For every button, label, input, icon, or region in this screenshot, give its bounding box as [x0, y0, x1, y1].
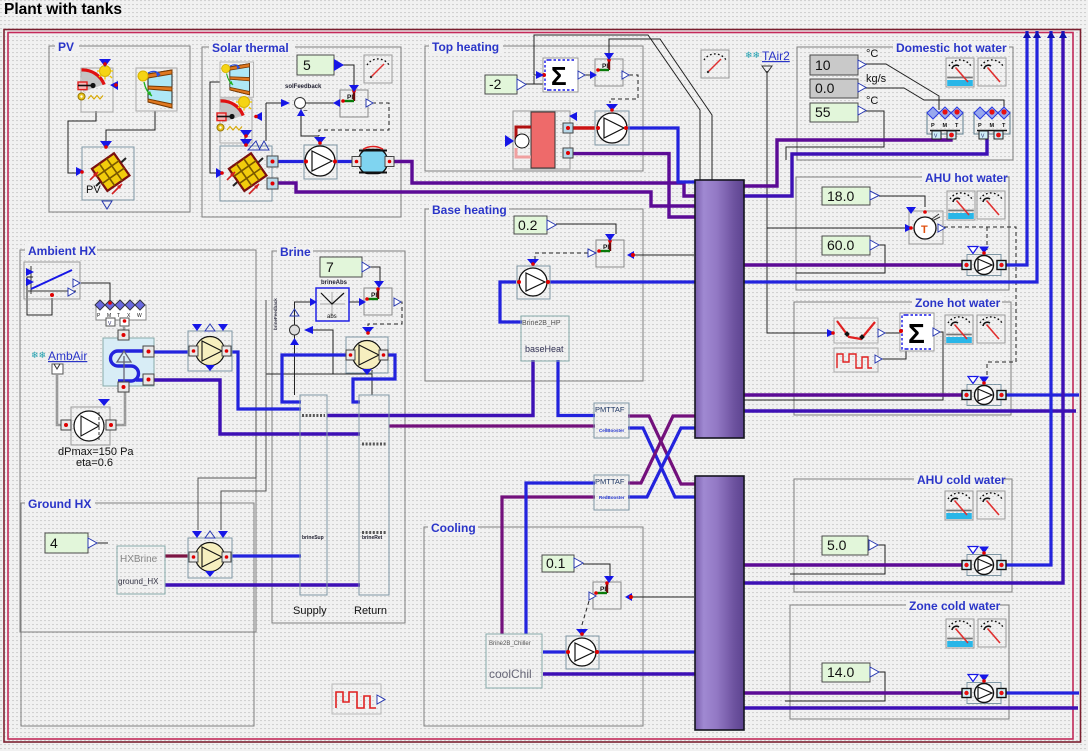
- weather window icon solar: [220, 62, 254, 97]
- pipe purple solar collector return: [273, 183, 696, 206]
- pipe red top-heating HX to pump: [573, 126, 595, 129]
- wire top-heating PI dashed to pump: [610, 75, 638, 103]
- pipe maroon HXBrine to ground pump: [165, 554, 192, 557]
- PI controller top heating: [590, 53, 629, 86]
- pipe purple tank1 to AHU hot pump: [744, 263, 967, 266]
- pipe blue solar pump to vessel: [335, 160, 357, 163]
- svg-text:Ground HX: Ground HX: [28, 497, 91, 511]
- weather window icon PV: [136, 68, 177, 111]
- pipe blue base heating pump to heatpump: [500, 282, 522, 322]
- group box Zone hot water: [794, 296, 1011, 415]
- svg-text:60.0: 60.0: [827, 237, 854, 253]
- value box 4: [45, 533, 97, 553]
- wire brine sensor verticals to ground pump: [198, 300, 256, 530]
- HXBrine block: [117, 546, 165, 594]
- pipe indigo ground HX to return: [165, 583, 360, 586]
- svg-text:Plant with tanks: Plant with tanks: [4, 1, 122, 18]
- svg-text:AmbAir: AmbAir: [48, 349, 87, 363]
- pipe indigo tank1 to DHW valve2: [744, 130, 987, 196]
- wire solar PI dashed output to pump: [319, 103, 389, 136]
- pump ambient brine: [188, 324, 232, 371]
- tank 1 (top buffer tank): [695, 180, 744, 438]
- wire PV weather1 to PV panel: [68, 111, 96, 173]
- svg-text:PV: PV: [58, 40, 74, 54]
- pipe purple tank2 to zone cold pump: [744, 691, 967, 694]
- AHU cold gauges: [945, 491, 973, 520]
- gray air duct HX to valve: [123, 326, 126, 336]
- wire solar feedback circle input: [266, 103, 281, 141]
- DHW gauge water: [946, 58, 974, 87]
- DHW gray value box 0.0: [810, 73, 887, 98]
- pipe blue zone hot pump out: [1001, 393, 1079, 396]
- sum block top heating: [536, 58, 585, 92]
- svg-text:5: 5: [303, 57, 311, 73]
- wire base heating PI sensor from tank: [634, 254, 694, 256]
- wire ambient ramp feedback: [27, 277, 52, 315]
- wire solar window to collector: [210, 82, 220, 173]
- pipe indigo tank1 zone hot return: [744, 409, 1076, 412]
- pipe blue base heating pump to tank1: [550, 280, 696, 283]
- TAir2 weather connector: [745, 49, 790, 73]
- group box PV: [49, 40, 190, 212]
- expansion vessel solar: [352, 146, 394, 173]
- wire DHW 55 degC setpoint: [786, 111, 884, 160]
- zone cold value 14.0: [822, 663, 879, 682]
- value box 0.1: [542, 555, 583, 572]
- svg-text:CellBooster: CellBooster: [599, 428, 625, 433]
- pipe blue AHU cold pump up to ceiling: [1001, 31, 1051, 565]
- pump brine: [346, 327, 388, 375]
- pipe blue solar collector to pump: [273, 160, 306, 163]
- svg-text:AHU cold water: AHU cold water: [917, 473, 1006, 487]
- zone cold pump: [962, 675, 1006, 704]
- svg-text:brineAbs: brineAbs: [321, 280, 348, 286]
- feedback circle brine: [290, 309, 314, 345]
- DHW gauge plain: [978, 58, 1006, 86]
- pipe purple tank1 to DHW valve1: [744, 130, 951, 186]
- DHW gray value box 10: [810, 48, 878, 75]
- wire brine circle from below: [294, 335, 296, 396]
- svg-text:TAir2: TAir2: [762, 49, 790, 63]
- pipe blue brine pump right loop to return: [353, 355, 395, 402]
- svg-text:0.0: 0.0: [815, 80, 835, 96]
- svg-text:Σ: Σ: [908, 318, 925, 349]
- svg-text:Zone hot water: Zone hot water: [915, 296, 1001, 310]
- pipe blue ambient pump to supply: [228, 352, 301, 409]
- wire solar sun-icon to collector: [244, 135, 246, 143]
- zone cold gauges: [946, 619, 974, 648]
- svg-text:AHU hot water: AHU hot water: [925, 171, 1008, 185]
- pipe magenta PMTTAF1 to tank2 upper (X crossing): [628, 416, 696, 484]
- svg-text:°C: °C: [866, 95, 878, 107]
- group box AHU cold water: [794, 473, 1012, 592]
- pulse generator (bottom standalone): [332, 684, 385, 714]
- svg-text:Return: Return: [354, 605, 387, 617]
- wire zone hot sum output to tank sensor: [744, 332, 943, 400]
- AHU hot value 60.0: [822, 236, 879, 255]
- fan ambient (dPmax): [61, 399, 116, 445]
- svg-text:solFeedback: solFeedback: [285, 84, 322, 90]
- pipe blue PMTTAF2 to tank1 (X crossing): [628, 428, 696, 497]
- value box 5: [297, 55, 344, 75]
- svg-text:❄❄: ❄❄: [745, 50, 760, 60]
- pipe blue tank1 return from ceiling: [744, 31, 1037, 282]
- wire solar circle to PI: [306, 102, 340, 104]
- wire DHW 10 degC to valve1: [864, 64, 939, 110]
- pipe purple tank1 to zone hot pump: [744, 393, 967, 396]
- pipe indigo tank2 AHU cold return from ceiling: [744, 31, 1063, 583]
- wire brine circle feedback right: [266, 330, 372, 395]
- svg-text:55: 55: [815, 104, 831, 120]
- svg-text:coolChil: coolChil: [489, 667, 532, 681]
- pipe indigo ambient HX return column: [154, 380, 360, 434]
- wire cooling PI sensor from tank: [632, 596, 694, 598]
- wire sum to PI top-heating: [578, 74, 592, 76]
- svg-text:PV: PV: [86, 184, 101, 196]
- wire AHU hot 18.0 to T block: [879, 196, 925, 207]
- zone hot curve block: [827, 318, 885, 343]
- svg-text:18.0: 18.0: [827, 188, 854, 204]
- pipe blue brine pump left loop to supply: [282, 355, 346, 402]
- svg-text:W: W: [137, 313, 142, 319]
- AHU cold value 5.0: [822, 536, 878, 555]
- svg-text:Domestic hot water: Domestic hot water: [896, 41, 1007, 55]
- brine return column: [359, 395, 389, 595]
- wire solar setpoint 5 to PI: [342, 65, 354, 86]
- pipe blue ambient HX to brine pump: [154, 350, 192, 353]
- wire AHU cold 5.0: [790, 545, 885, 574]
- wire PV window to PV panel: [106, 111, 155, 146]
- value box 0.2: [514, 216, 556, 234]
- brine supply column: [300, 395, 327, 595]
- air HX block (coil): [103, 330, 154, 392]
- svg-text:0.1: 0.1: [546, 555, 566, 571]
- pipe indigo heatpump down to supply column: [327, 360, 533, 416]
- heat pump block baseHeat: [521, 316, 569, 361]
- AmbAir weather connector: [31, 349, 87, 374]
- ramp block ambient: [24, 262, 80, 299]
- pipe indigo tank2 zone cold return: [744, 706, 1078, 709]
- svg-text:−: −: [303, 106, 308, 115]
- svg-text:0.2: 0.2: [518, 217, 538, 233]
- pipe blue zone cold pump out: [1001, 691, 1079, 694]
- DHW valve group 1: [927, 107, 963, 140]
- group box Domestic hot water: [797, 41, 1013, 160]
- svg-text:Cooling: Cooling: [431, 521, 476, 535]
- PI controller solar: [333, 85, 373, 117]
- PMTTAF converter 2: [594, 475, 629, 510]
- gauge top heating: [701, 50, 729, 78]
- svg-text:Brine: Brine: [280, 245, 311, 259]
- PI controller cooling: [589, 576, 633, 609]
- group box Brine: [272, 245, 405, 623]
- feedback junction circle solar: [281, 98, 308, 117]
- svg-text:kg/s: kg/s: [866, 73, 887, 85]
- svg-text:Supply: Supply: [293, 605, 327, 617]
- weather sun-sector icon PV: [78, 59, 118, 112]
- pipe blue chiller to cooling pump: [543, 650, 568, 653]
- gray air duct AmbAir to fan: [57, 374, 64, 425]
- svg-text:HXBrine: HXBrine: [120, 554, 158, 565]
- arrow tips of riser pipes at top border: [1023, 31, 1067, 38]
- pipe blue heatpump down to PMTTAF1: [558, 360, 595, 416]
- zone hot pump: [962, 377, 1006, 406]
- wire cooling PI dashed to pump: [581, 601, 589, 628]
- svg-text:14.0: 14.0: [827, 664, 854, 680]
- AHU hot value 18.0: [822, 187, 879, 205]
- value box -2: [485, 75, 526, 94]
- zone hot pulse block: [834, 348, 882, 372]
- svg-text:T: T: [921, 224, 928, 236]
- wire TAir2 down and to T-block and curve block: [767, 71, 905, 333]
- PI controller brine: [359, 281, 401, 315]
- gauge solar: [364, 55, 392, 83]
- svg-text:7: 7: [326, 259, 334, 275]
- pipe magenta PMTTAF2 to tank1 (X crossing): [628, 416, 696, 483]
- group box Cooling: [424, 521, 643, 726]
- wire top-heating sensor A from tank: [534, 35, 700, 180]
- DHW valve group 2: [974, 107, 1010, 140]
- group box Base heating: [425, 203, 643, 381]
- svg-text:Σ: Σ: [551, 61, 567, 91]
- wire top-heating sensor B from tank to PI: [609, 39, 712, 180]
- pipe blue AHU hot pump up to ceiling: [1001, 31, 1027, 265]
- wire zone cold 14.0: [785, 672, 885, 701]
- wire AHU hot 60.0: [796, 245, 885, 273]
- group box Solar thermal: [202, 41, 401, 217]
- pump cooling: [566, 629, 599, 669]
- svg-text:Base heating: Base heating: [432, 203, 507, 217]
- AHU hot gauges: [947, 191, 975, 220]
- pipe magenta return column to PMTTAF1: [389, 424, 595, 427]
- wire brine abs to PI: [349, 301, 359, 303]
- svg-text:brineSup: brineSup: [302, 535, 324, 541]
- chiller block coolChil: [486, 634, 542, 688]
- zone hot sum block: [899, 313, 940, 351]
- wire brine PI dashed to pump: [368, 302, 402, 332]
- group box Ground HX: [21, 497, 254, 726]
- weather sun-sector icon solar: [217, 97, 252, 144]
- pump ground: [188, 531, 232, 578]
- svg-text:ground_HX: ground_HX: [118, 577, 159, 586]
- svg-text:abs: abs: [327, 314, 337, 320]
- pipe magenta chiller to PMTTAF2: [502, 497, 595, 634]
- svg-text:brineRet: brineRet: [362, 535, 383, 541]
- pipe purple top-heating HX return: [573, 154, 696, 217]
- svg-text:RedBooster: RedBooster: [599, 495, 625, 500]
- tank 2 (bottom buffer tank): [695, 476, 744, 730]
- svg-text:baseHeat: baseHeat: [525, 344, 564, 354]
- pipe blue top-heating pump to tank1: [628, 128, 696, 182]
- svg-text:10: 10: [815, 57, 831, 73]
- pipe blue PMTTAF1 to tank2 lower (X crossing): [628, 428, 696, 497]
- wire base heating 0.2 to PI: [556, 224, 616, 234]
- AHU hot pump: [962, 247, 1006, 276]
- svg-text:Brine2B_HP: Brine2B_HP: [522, 320, 561, 327]
- pump base heating: [517, 259, 550, 299]
- wire brine circle to abs input: [295, 302, 311, 326]
- svg-text:❄❄: ❄❄: [31, 350, 46, 360]
- group box Zone cold water: [790, 599, 1009, 719]
- wire ground 4 setpoint: [97, 542, 108, 544]
- svg-text:Zone cold water: Zone cold water: [909, 599, 1001, 613]
- zone hot gauges: [945, 315, 973, 344]
- PV panel block: [76, 141, 134, 209]
- pump solar: [304, 137, 337, 179]
- wire AHU hot T dashed to pumps: [944, 227, 1016, 375]
- pipe blue chiller to PMTTAF2: [526, 483, 595, 634]
- group box AHU hot water: [796, 171, 1009, 290]
- pipe purple solar vessel to tank1: [388, 162, 696, 197]
- group box Top heating: [425, 40, 643, 171]
- svg-text:brineFeedback: brineFeedback: [273, 298, 278, 330]
- wire base heating PI dashed to pump: [535, 253, 588, 260]
- svg-text:Top heating: Top heating: [432, 40, 499, 54]
- svg-text:°C: °C: [866, 48, 878, 60]
- pipe indigo chiller return tank2: [543, 672, 696, 675]
- AHU cold pump: [962, 547, 1006, 576]
- svg-text:5.0: 5.0: [827, 537, 847, 553]
- gray air duct fan to HX: [114, 390, 125, 425]
- valve array ambient (PMTXW): [95, 300, 146, 327]
- svg-text:Brine2B_Chiller: Brine2B_Chiller: [489, 641, 531, 647]
- wire solar circle minus from below: [301, 109, 319, 136]
- svg-text:Ambient HX: Ambient HX: [28, 244, 96, 258]
- svg-text:Solar thermal: Solar thermal: [212, 41, 289, 55]
- wire zone hot curve to sum: [885, 332, 900, 334]
- pump top heating: [595, 104, 629, 145]
- group box Ambient HX: [20, 244, 256, 632]
- wire ambient ramp output to valve: [81, 283, 110, 300]
- PMTTAF converter 1: [594, 403, 629, 438]
- wire DHW 0.0 kg/s to valve2: [864, 88, 1004, 110]
- DHW green value box 55: [810, 95, 878, 122]
- wire -2 to sum block: [525, 76, 543, 84]
- pipe blue cooling pump to tank2: [596, 650, 696, 653]
- abs block brine: [310, 288, 349, 321]
- PI controller base heating: [588, 234, 635, 267]
- wire zone hot pulse to sum: [882, 350, 906, 359]
- pipe blue ground pump to supply: [228, 554, 301, 557]
- svg-text:PMTTAF: PMTTAF: [595, 405, 625, 414]
- svg-text:4: 4: [50, 535, 58, 551]
- svg-text:PMTTAF: PMTTAF: [595, 477, 625, 486]
- value box 7: [320, 257, 370, 277]
- heat exchanger top heating: [505, 111, 577, 169]
- wire brine 7 to PI: [367, 267, 380, 281]
- T controller block AHU hot: [905, 207, 945, 244]
- svg-text:eta=0.6: eta=0.6: [76, 457, 113, 469]
- pipe purple tank2 to AHU cold pump: [744, 563, 967, 566]
- wire cooling 0.1 to PI: [583, 564, 610, 576]
- svg-text:-2: -2: [489, 76, 502, 92]
- solar collector block: [216, 139, 278, 201]
